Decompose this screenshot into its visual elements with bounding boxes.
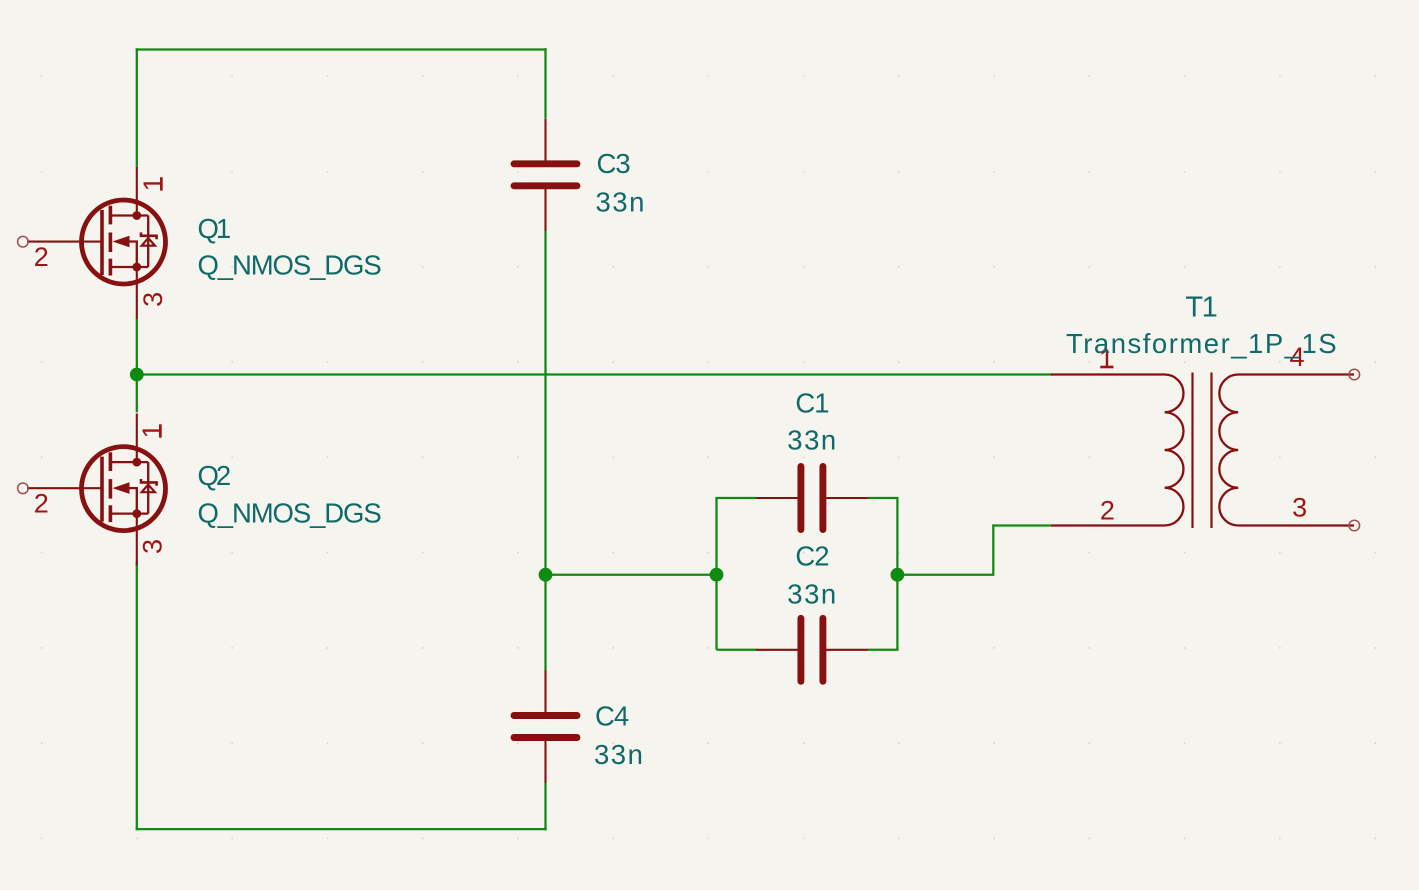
junction C1/C2 left (710, 568, 724, 582)
wire C1/C2 right branch (868, 498, 898, 650)
svg-text:1: 1 (138, 176, 168, 191)
wire C1/C2 left branch (717, 498, 757, 650)
capacitor C3 (514, 119, 577, 231)
svg-text:Q2: Q2 (198, 460, 230, 491)
transistor Q2 (27, 414, 166, 566)
svg-text:2: 2 (34, 242, 49, 272)
wire node A to T1 pin 1 (137, 373, 1052, 375)
capacitor C2 (756, 618, 868, 681)
wire left rail upper (136, 48, 138, 167)
svg-text:C3: C3 (597, 148, 631, 179)
svg-text:Transformer_1P_1S: Transformer_1P_1S (1066, 328, 1338, 359)
wire left rail middle (136, 318, 138, 412)
T1 pin 4 open end (1349, 369, 1360, 380)
T1 primary winding with pins 1,2 (1051, 375, 1184, 526)
svg-text:3: 3 (1292, 493, 1307, 523)
svg-text:C1: C1 (795, 388, 828, 419)
capacitor C4 (514, 671, 577, 783)
T1 secondary winding with pins 4,3 (1219, 375, 1354, 526)
Q1 pin 1 number (138, 176, 168, 191)
transformer T1 (1051, 373, 1354, 529)
wire junction to C1/C2 (546, 574, 717, 576)
svg-text:33n: 33n (596, 187, 646, 218)
svg-text:Q_NMOS_DGS: Q_NMOS_DGS (198, 249, 382, 280)
svg-text:2: 2 (34, 488, 49, 518)
svg-text:C2: C2 (795, 541, 828, 572)
wire left rail lower (136, 561, 138, 830)
svg-text:33n: 33n (787, 579, 837, 610)
wire top rail (136, 48, 547, 50)
svg-text:C4: C4 (595, 701, 629, 732)
wire mid rail upper (544, 48, 546, 118)
T1 core line left (1191, 373, 1193, 529)
svg-text:Q1: Q1 (198, 213, 230, 244)
svg-text:Q_NMOS_DGS: Q_NMOS_DGS (198, 498, 382, 529)
svg-text:33n: 33n (787, 425, 837, 456)
Q2 gate open pin end (18, 483, 29, 494)
junction node A (130, 368, 144, 382)
junction C1/C2 right (891, 568, 905, 582)
wire bottom rail (136, 828, 547, 830)
svg-text:3: 3 (138, 292, 168, 307)
svg-text:T1: T1 (1185, 292, 1216, 324)
wire mid rail middle (544, 230, 546, 671)
svg-text:2: 2 (1100, 496, 1115, 526)
svg-text:1: 1 (137, 423, 167, 438)
svg-text:33n: 33n (594, 739, 644, 770)
transistor Q1 (27, 167, 166, 319)
wire mid rail lower (544, 781, 546, 830)
wire C1/C2 to T1 pin 2 (897, 526, 1050, 575)
svg-text:3: 3 (138, 539, 168, 554)
Q1 gate open pin end (18, 236, 29, 247)
T1 pin 1 number (1099, 344, 1114, 374)
T1 pin 3 open end (1349, 520, 1360, 531)
Q2 pin 1 number (137, 423, 167, 438)
capacitor C1 (756, 467, 868, 530)
junction mid rail (539, 568, 553, 582)
T1 core line right (1210, 373, 1212, 529)
